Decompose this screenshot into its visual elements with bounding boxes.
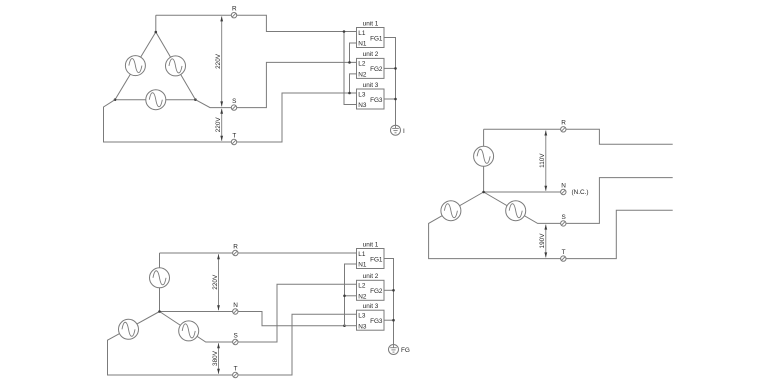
terminal S (110V) (561, 214, 566, 226)
svg-text:FG1: FG1 (370, 35, 383, 42)
wire R phase out (110V) (484, 129, 673, 144)
svg-text:FG1: FG1 (370, 256, 383, 263)
svg-text:unit 2: unit 2 (363, 273, 379, 280)
ac source left (delta) (125, 56, 145, 76)
svg-text:unit 3: unit 3 (363, 82, 379, 89)
wire delta left edge (115, 32, 156, 100)
svg-text:220V: 220V (215, 117, 222, 133)
dimension 220V R-N (212, 254, 220, 310)
wire R phase to L1 (156, 15, 357, 31)
svg-text:N1: N1 (358, 262, 367, 269)
svg-text:S: S (232, 98, 236, 105)
ac source left (110V) (441, 201, 461, 221)
wire N to terminal (110V) (484, 191, 561, 193)
svg-text:S: S (233, 332, 237, 339)
wire FG3 stub (384, 98, 396, 100)
node delta top vertex (155, 31, 158, 34)
svg-text:T: T (232, 132, 236, 139)
wire T phase out (110V) (429, 192, 673, 259)
terminal R (delta) (231, 6, 237, 18)
terminal N (wye) (233, 302, 239, 314)
ac source top (wye) (150, 268, 170, 288)
svg-text:L3: L3 (358, 91, 366, 98)
terminal T (110V) (561, 249, 566, 261)
dimension 190V S-T (539, 225, 547, 258)
wire FG2 stub (384, 67, 396, 69)
junction N bus / N2 (343, 295, 346, 298)
svg-text:L2: L2 (358, 283, 366, 290)
terminal T (wye) (233, 365, 238, 377)
unit 3 box (delta) (357, 82, 385, 109)
svg-text:R: R (232, 6, 237, 13)
svg-text:220V: 220V (215, 53, 222, 69)
svg-text:FG3: FG3 (370, 97, 383, 104)
svg-text:FG: FG (401, 347, 410, 354)
svg-text:FG2: FG2 (370, 288, 383, 295)
terminal R (wye) (233, 243, 239, 255)
node delta bottom-right vertex (194, 98, 197, 101)
svg-text:unit 3: unit 3 (363, 303, 379, 310)
ac source right (wye) (179, 321, 199, 341)
dimension 220V S-T (215, 109, 223, 141)
svg-text:N: N (233, 302, 238, 309)
wire T phase to L3 (104, 93, 357, 142)
wire N to bus (160, 312, 345, 326)
junction S/L2/N1 (348, 61, 351, 64)
wire N bus to N1 (345, 264, 357, 326)
wire R branch to N3 (344, 32, 357, 105)
svg-text:220V: 220V (212, 274, 219, 290)
wire FG1 to ground bus (384, 38, 396, 126)
unit 1 box (delta) (357, 20, 385, 47)
terminal N (110V) (561, 182, 567, 194)
wire FG1 to ground bus (wye) (384, 259, 394, 345)
svg-text:380V: 380V (212, 350, 219, 366)
unit 2 box (delta) (357, 51, 385, 78)
svg-text:T: T (562, 249, 566, 256)
svg-text:N3: N3 (358, 102, 367, 109)
wire FG3 stub (wye) (384, 319, 394, 321)
ground (delta) (391, 125, 401, 135)
svg-text:T: T (234, 365, 238, 372)
wire delta top vertex to R line (155, 15, 157, 32)
wire T phase to L3 (wye) (108, 312, 357, 376)
unit 1 box (wye) (357, 241, 385, 268)
svg-text:FG3: FG3 (370, 318, 383, 325)
wire S phase to L2 (wye) (160, 284, 357, 342)
ac source right (delta) (166, 56, 186, 76)
svg-text:L1: L1 (358, 30, 366, 37)
dimension 220V R-S (215, 16, 223, 106)
node star center (wye) (158, 310, 161, 313)
svg-text:(N.C.): (N.C.) (572, 189, 589, 196)
wire FG2 stub (wye) (384, 289, 394, 291)
junction FG bus / FG2 (394, 67, 397, 70)
junction FG bus / FG2 (wye) (392, 289, 395, 292)
wire delta right edge (156, 32, 196, 100)
wire star top branch (110V) (483, 129, 485, 192)
node star center (110V) (482, 191, 485, 194)
wire N2 to T phase (350, 74, 357, 93)
dimension 380V S-T (212, 343, 220, 374)
svg-text:190V: 190V (539, 233, 546, 249)
wire star top branch (159, 253, 161, 312)
unit 3 box (wye) (357, 303, 385, 330)
wire N1 to S phase (350, 43, 357, 62)
svg-text:N3: N3 (358, 323, 367, 330)
terminal S (delta) (231, 98, 236, 110)
ground (wye) (389, 345, 399, 355)
ac source top (110V) (474, 146, 494, 166)
svg-text:unit 1: unit 1 (363, 241, 379, 248)
svg-text:FG2: FG2 (370, 66, 383, 73)
wire S phase to L2 (196, 62, 357, 107)
svg-text:N2: N2 (358, 294, 367, 301)
svg-text:L2: L2 (358, 61, 366, 68)
wire S phase out (110V) (484, 178, 673, 224)
wire R phase to L1 (wye) (160, 252, 357, 254)
junction FG bus / FG3 (wye) (392, 319, 395, 322)
junction T/L3/N2 (348, 92, 351, 95)
wire N3 stub (345, 325, 357, 327)
ac source bottom (delta) (146, 90, 166, 110)
ac source right (110V) (506, 201, 526, 221)
dimension 110V R-N (539, 131, 547, 191)
svg-text:R: R (233, 243, 238, 250)
wire delta bottom edge (115, 99, 196, 101)
junction R/L1/N3 branch (343, 30, 346, 33)
svg-text:L1: L1 (358, 251, 366, 258)
node delta bottom-left vertex (114, 98, 117, 101)
svg-text:R: R (561, 120, 566, 127)
svg-text:N: N (561, 182, 566, 189)
junction N bus / N3 (343, 324, 346, 327)
svg-text:L3: L3 (358, 313, 366, 320)
svg-text:110V: 110V (539, 153, 546, 168)
svg-text:S: S (561, 214, 565, 221)
junction FG bus / FG3 (394, 98, 397, 101)
ac source left (wye) (119, 319, 139, 339)
svg-text:N2: N2 (358, 72, 367, 79)
svg-text:unit 1: unit 1 (363, 20, 379, 27)
wire N2 stub (345, 295, 357, 297)
terminal T (delta) (231, 132, 236, 144)
terminal R (110V) (561, 120, 567, 132)
svg-text:unit 2: unit 2 (363, 51, 379, 58)
svg-text:I: I (403, 128, 405, 135)
unit 2 box (wye) (357, 273, 385, 300)
svg-text:N1: N1 (358, 41, 367, 48)
terminal S (wye) (233, 332, 238, 344)
